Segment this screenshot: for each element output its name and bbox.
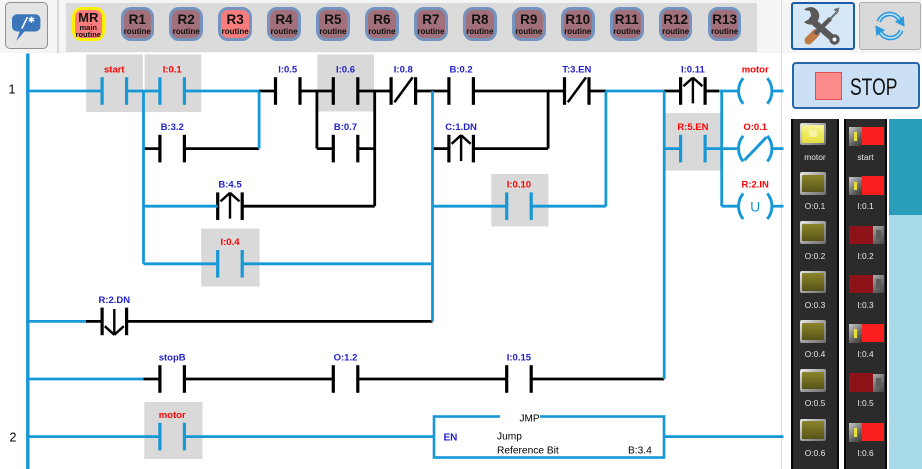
wire branch B:3.2 right [184,147,259,150]
wire rung1 I:0.6 to I:0.8 [358,90,391,93]
label O:0.6 [791,448,839,458]
wire rung1 to motor coil [719,90,740,93]
wire rung2 rail to motor [26,435,160,438]
wire O:0.1 coil to rail [772,147,784,150]
button R3 routine [218,7,252,41]
button R1 routine [121,7,155,41]
contact R:2.DN [98,295,130,335]
wire junction C:1.DN rejoin [547,91,550,149]
tools settings button [791,2,855,50]
svg-text:Jump: Jump [497,432,522,443]
wire branch I:0.10 right [531,205,606,208]
wire junction after I:0.8 down to R:2.DN [431,91,434,321]
highlight box I:0.10 [491,174,548,227]
wire rung1 junction to I:0.11 [664,90,680,93]
wire branch B:0.7 left [317,147,333,150]
STOP button [792,62,920,109]
button R12 routine [659,7,693,41]
svg-text:U: U [750,199,760,215]
svg-text:T:3.EN: T:3.EN [562,64,591,75]
label I:0.6 [844,448,888,458]
wire branch B:4.5 right [242,205,375,208]
svg-text:start: start [104,64,125,75]
button MR main routine [72,7,106,41]
wire I:0.15 to node [531,378,664,381]
contact B:0.2 [449,64,474,104]
contact O:1.2 [333,352,358,392]
indicator lamp button O:0.5 [800,369,827,392]
contact stopB [159,352,186,392]
contact start [102,64,127,104]
node left power rail [26,54,29,469]
label I:0.3 [844,300,888,310]
wire branch I:0.4 left [144,262,218,265]
label O:0.5 [791,398,839,408]
STOP button red square [815,72,843,100]
svg-text:O:1.2: O:1.2 [334,352,358,363]
indicator lamp button motor [800,123,827,146]
button R4 routine [267,7,301,41]
label O:0.3 [791,300,839,310]
screwdriver [809,8,840,41]
wire junction B:0.7 drop [315,91,318,149]
indicator lamp button O:0.3 [800,271,827,294]
highlight box motor [144,402,202,459]
indicator lamp button O:0.6 [800,419,827,442]
highlight box start [86,55,143,113]
button R9 routine [512,7,546,41]
wire rung2 JMP to rail [664,435,784,438]
wire rung1 node to junction [606,90,664,93]
wire rung1 start to I:0.1 [127,90,160,93]
wire branch B:0.7 right [358,147,375,150]
svg-text:I:0.6: I:0.6 [336,64,355,75]
toolbar separator [57,0,59,53]
toggle switch I:0.2 [849,226,873,244]
label O:0.2 [791,251,839,261]
wire junction B:4.5 rejoin [373,91,376,206]
contact I:0.10 [507,180,532,220]
instruction box JMP [434,411,664,458]
button R6 routine [365,7,399,41]
toggle switch start [849,127,862,146]
routine toolbar panel [66,3,757,52]
contact C:1.DN [445,122,477,162]
wire rung1 node to I:0.5 [259,90,275,93]
wire branch B:3.2 left [144,147,160,150]
highlight box I:0.4 [201,229,259,287]
STOP label [850,74,914,102]
wire rung1 after I:0.11 [705,90,719,93]
svg-text:C:1.DN: C:1.DN [445,122,477,133]
contact B:4.5 [218,180,243,220]
svg-text:2: 2 [10,431,17,445]
wire branch I:0.4 right [242,262,432,265]
svg-text:I:0.11: I:0.11 [681,64,705,75]
svg-text:motor: motor [159,410,186,421]
svg-text:motor: motor [742,64,769,75]
contact B:0.7 [333,122,358,162]
contact I:0.8 [391,64,416,104]
wire to stopB [144,378,160,381]
wrench [798,3,840,44]
toggle switch I:0.1 [849,177,862,196]
top toolbar background [0,0,922,53]
wire junction I:0.10 rejoin [605,91,608,206]
svg-text:I:0.8: I:0.8 [394,64,413,75]
wire R:2.DN right [127,320,433,323]
contact B:3.2 [160,122,185,162]
wire R:2.IN coil to rail [772,205,784,208]
wire rung1 I:0.5 to I:0.6 [300,90,333,93]
contact I:0.1 [160,64,185,104]
label O:0.1 [791,201,839,211]
svg-text:R:2.IN: R:2.IN [741,180,769,191]
contact I:0.4 [218,237,243,277]
svg-text:B:4.5: B:4.5 [218,180,242,191]
indicator lamp button O:0.4 [800,320,827,343]
wire branch I:0.10 left [433,205,507,208]
wire branch C:1.DN left [433,147,449,150]
label O:0.4 [791,349,839,359]
button R11 routine [610,7,644,41]
refresh sync icon [868,4,912,48]
wire rung1 I:0.1 to node [184,90,259,93]
contact motor [159,410,186,450]
coil motor [739,64,772,103]
refresh button [859,2,921,50]
svg-text:I:0.15: I:0.15 [507,352,532,363]
svg-text:B:0.2: B:0.2 [449,64,472,75]
wire branch to O:0.1 coil [722,147,740,150]
svg-text:R:5.EN: R:5.EN [677,122,708,133]
output lamp column [791,119,839,469]
comment bubble icon [0,0,50,52]
comment edit button [5,2,48,49]
wire rail to R:2.DN cell [26,320,86,323]
scrollbar thumb [889,119,922,215]
toggle switch I:0.5 [849,373,873,391]
label I:0.1 [844,201,888,211]
ladder/panel separator line [781,0,782,469]
tools icon wrench and screwdriver [793,1,853,51]
svg-text:I:0.4: I:0.4 [220,237,240,248]
wire rung2 motor to JMP [184,435,434,438]
svg-text:1: 1 [9,83,16,97]
coil O:0.1 [739,122,772,161]
wire junction down at start/I:0.1 [142,91,145,264]
highlight box I:0.1 [145,55,202,113]
label motor [791,152,839,162]
wire rung1 B:0.2 to T:3.EN [473,90,564,93]
button R7 routine [414,7,448,41]
indicator lamp button O:0.1 [800,172,827,195]
svg-text:B:0.7: B:0.7 [334,122,357,133]
wire rung1 T:3.EN to node [589,90,606,93]
button R5 routine [316,7,350,41]
wire branch C:1.DN right [473,147,548,150]
svg-text:stopB: stopB [159,352,186,363]
contact I:0.6 [333,64,358,104]
svg-text:B:3.4: B:3.4 [628,446,652,457]
wire junction down to stopB branch end [663,91,666,379]
button R2 routine [169,7,203,41]
wire to R:2.DN [86,320,102,323]
label I:0.2 [844,251,888,261]
svg-text:I:0.1: I:0.1 [163,64,183,75]
toggle switch I:0.3 [849,275,873,293]
wire branch B:4.5 left [144,205,218,208]
wire rung1 rail to start [26,90,102,93]
label I:0.4 [844,349,888,359]
highlight box R:5.EN [665,113,723,171]
wire rail to stopB cell [26,378,144,381]
svg-text:I:0.10: I:0.10 [507,180,531,191]
wire branch R:5.EN left [664,147,680,150]
contact I:0.15 [507,352,532,392]
toggle switch I:0.6 [849,423,862,442]
contact I:0.11 [681,64,706,104]
svg-text:O:0.1: O:0.1 [743,122,767,133]
wire rung1 I:0.8 to B:0.2 [416,90,449,93]
button R10 routine [561,7,595,41]
svg-text:JMP: JMP [520,414,540,425]
label start [844,152,888,162]
wire junction coil branches [720,91,723,206]
svg-text:EN: EN [444,432,458,443]
contact I:0.5 [276,64,301,104]
button R8 routine [463,7,497,41]
contact R:5.EN [677,122,708,162]
scrollbar track [889,119,922,469]
wire O:1.2 to I:0.15 [358,378,507,381]
wire rung1 motor coil to rail [772,90,784,93]
svg-text:Reference Bit: Reference Bit [497,446,559,457]
toggle switch I:0.4 [849,324,862,343]
wire junction B:3.2 rejoin [258,91,261,149]
contact T:3.EN [562,64,591,104]
svg-text:I:0.5: I:0.5 [278,64,298,75]
coil R:2.IN [739,180,772,219]
wire stopB to O:1.2 [184,378,333,381]
indicator lamp button O:0.2 [800,221,827,244]
label I:0.5 [844,398,888,408]
wire branch R:5.EN right [705,147,722,150]
input switch column [844,119,888,469]
svg-text:R:2.DN: R:2.DN [98,295,130,306]
button R13 routine [708,7,742,41]
highlight box I:0.6 [317,55,374,112]
svg-text:B:3.2: B:3.2 [161,122,184,133]
wire branch to R:2.IN coil [722,205,740,208]
